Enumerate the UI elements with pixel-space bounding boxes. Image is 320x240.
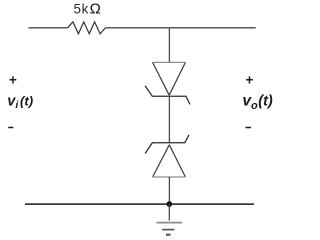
wire (top, resistor to output terminal) <box>106 27 256 29</box>
node label: input − terminal <box>8 127 13 129</box>
ground <box>157 204 183 235</box>
wire (between zener cathodes) <box>168 96 170 143</box>
node (junction dot at ground) <box>167 201 173 207</box>
svg-text:Ω: Ω <box>90 0 101 17</box>
wire (top-left, input to resistor) <box>29 27 68 29</box>
wire (zener D2 anode to bottom rail) <box>168 177 170 204</box>
zener diode D2 (bottom, cathode up) <box>145 135 189 177</box>
svg-text:+: + <box>9 72 17 87</box>
svg-text:+: + <box>245 72 253 87</box>
node label: output − terminal <box>246 127 252 129</box>
svg-text:vo(t): vo(t) <box>242 93 273 112</box>
wire (bottom rail) <box>25 203 254 205</box>
wire (vertical from top wire to zener D1) <box>168 28 170 63</box>
resistor R (5kΩ) zigzag <box>68 22 106 34</box>
resistor value label 5kΩ <box>74 0 101 17</box>
svg-text:vi(t): vi(t) <box>7 94 33 112</box>
zener diode D1 (top, cathode down) <box>145 62 190 104</box>
svg-text:5k: 5k <box>74 2 90 17</box>
